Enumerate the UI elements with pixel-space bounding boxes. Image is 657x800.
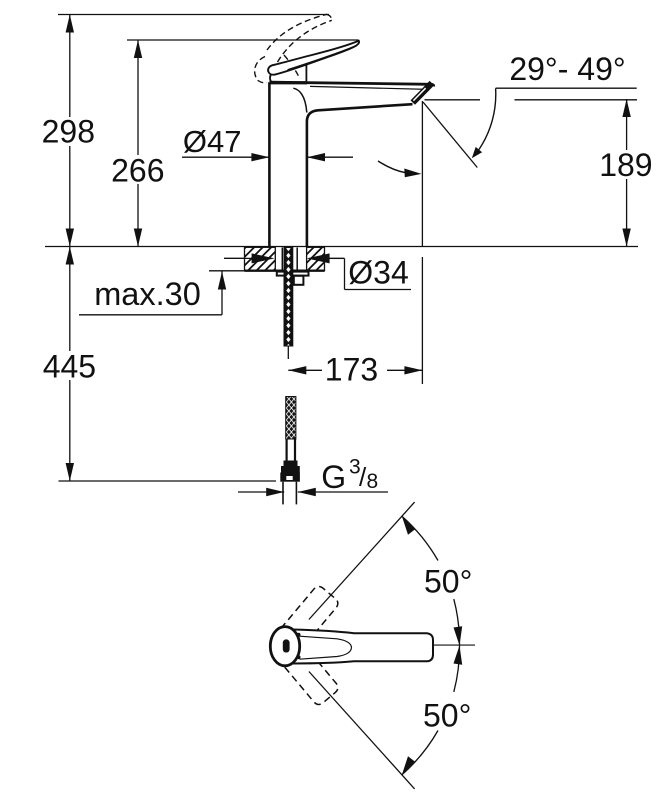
svg-text:max.30: max.30 <box>94 276 201 312</box>
svg-text:Ø34: Ø34 <box>348 255 408 291</box>
svg-text:29°- 49°: 29°- 49° <box>509 51 625 87</box>
svg-text:445: 445 <box>43 349 96 385</box>
svg-text:8: 8 <box>367 470 379 493</box>
svg-text:189: 189 <box>599 147 652 183</box>
svg-text:266: 266 <box>111 152 164 188</box>
svg-text:50°: 50° <box>424 563 472 599</box>
svg-text:298: 298 <box>42 114 95 150</box>
svg-text:50°: 50° <box>423 698 471 734</box>
svg-text:173: 173 <box>325 352 378 388</box>
svg-text:G: G <box>321 459 346 495</box>
svg-text:Ø47: Ø47 <box>183 124 242 159</box>
